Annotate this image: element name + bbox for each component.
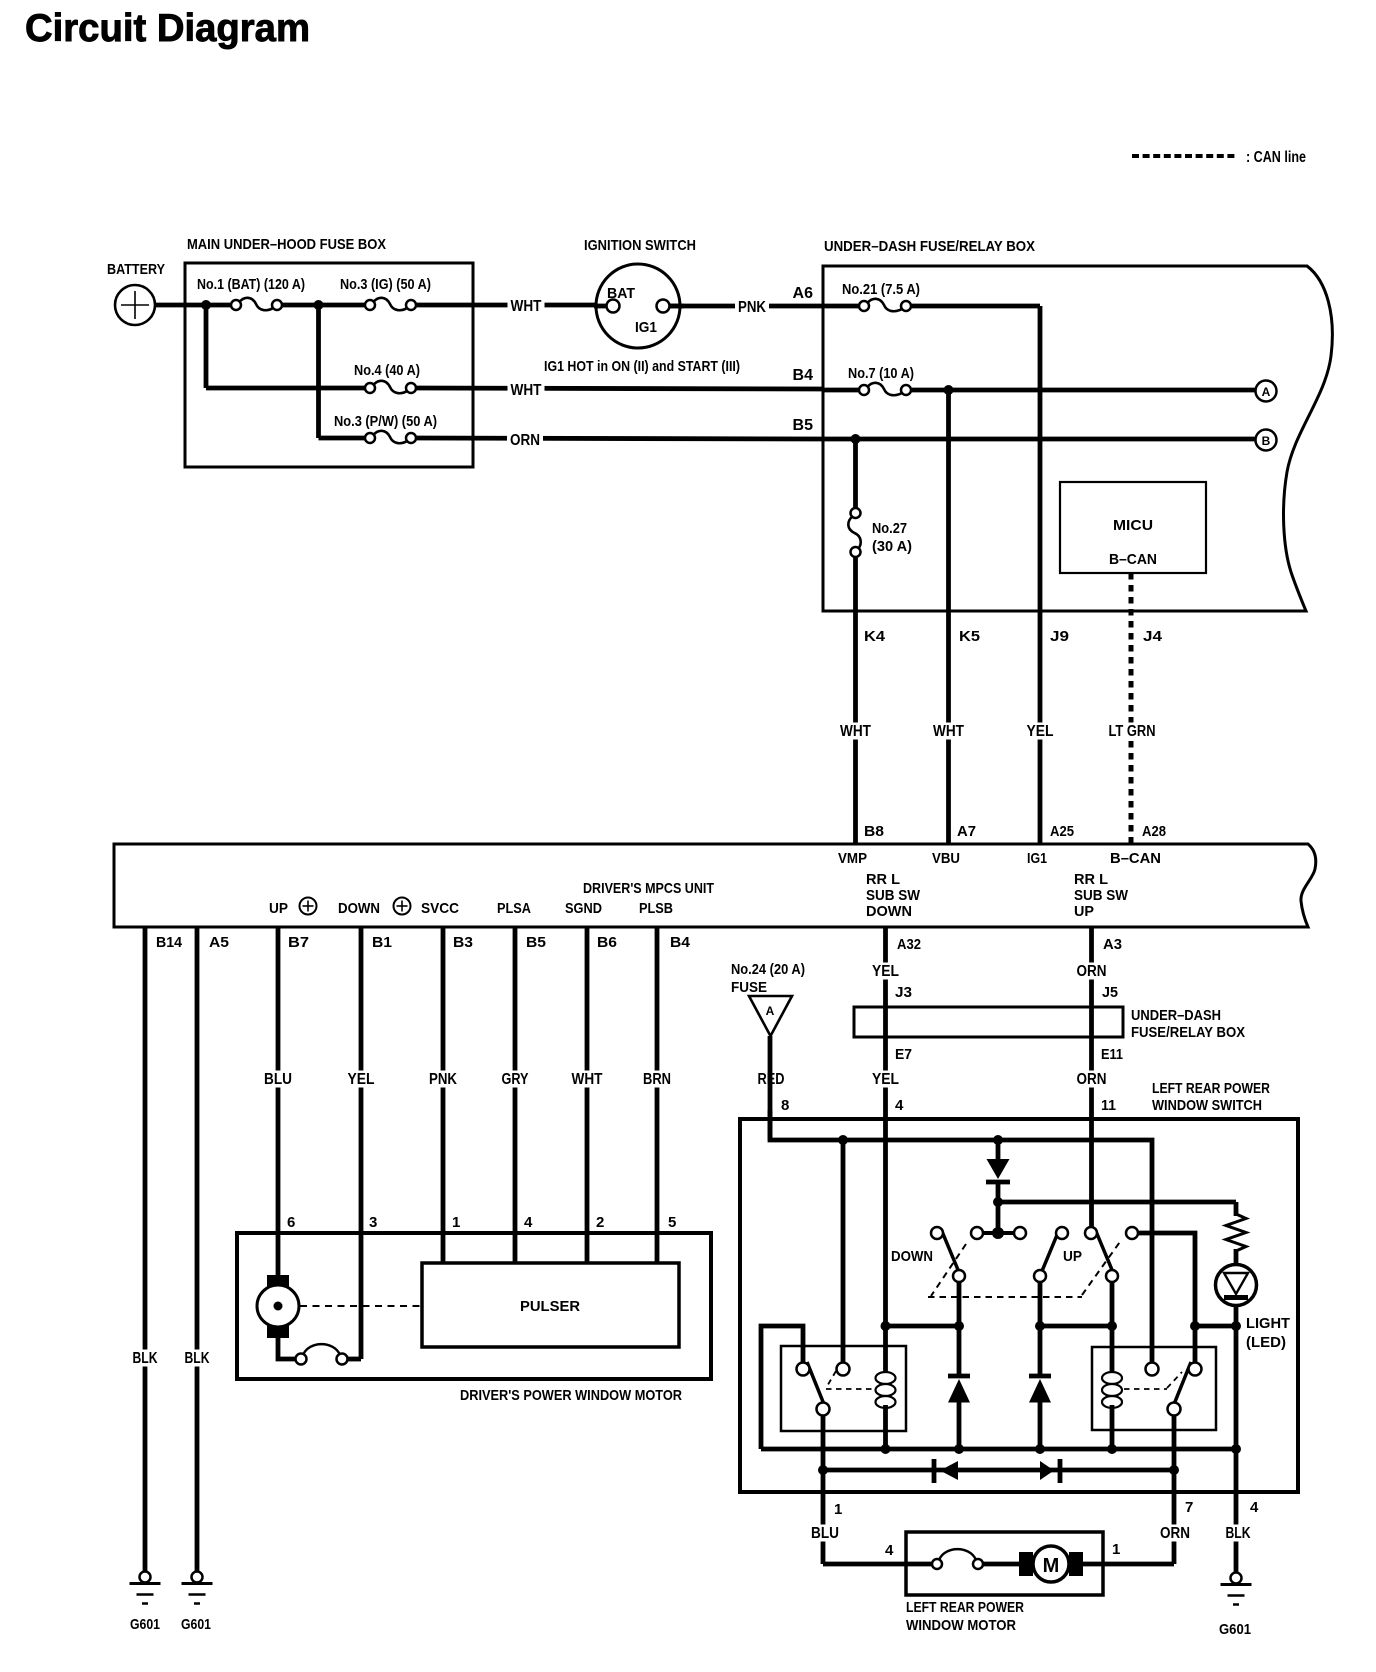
svg-text:4: 4 (895, 1097, 904, 1114)
svg-text:1: 1 (1112, 1541, 1120, 1558)
svg-text:YEL: YEL (872, 963, 899, 980)
svg-text:RR L: RR L (1074, 871, 1108, 888)
svg-text:FUSE/RELAY BOX: FUSE/RELAY BOX (1131, 1024, 1245, 1041)
wire BLU to LR motor connector (823, 1562, 932, 1567)
svg-text:Circuit Diagram: Circuit Diagram (25, 7, 310, 50)
under-dash fuse/relay box outline (823, 266, 1332, 611)
svg-text:No.27: No.27 (872, 520, 907, 537)
wire color PNK (735, 299, 769, 316)
svg-text:G601: G601 (1219, 1621, 1251, 1638)
svg-text:B3: B3 (453, 934, 473, 951)
svg-text:B1: B1 (372, 934, 392, 951)
svg-text:A6: A6 (793, 285, 814, 302)
svg-text:A28: A28 (1142, 823, 1166, 840)
wire diode row BLU to ORN (823, 1468, 1174, 1473)
svg-text:(LED): (LED) (1246, 1334, 1286, 1351)
wire A32 YEL to switch (883, 927, 888, 1374)
wire seg2 (1040, 1324, 1112, 1329)
wire B7 BLU to motor (276, 927, 281, 1277)
svg-text:PLSA: PLSA (497, 900, 531, 917)
main under-hood fuse box outline (185, 263, 473, 467)
svg-text:FUSE: FUSE (731, 979, 767, 996)
wire color WHT K5 (930, 723, 967, 740)
wire B5 to connector B (823, 437, 1255, 442)
wire color GRY (499, 1071, 532, 1088)
svg-text:WHT: WHT (933, 723, 964, 740)
junction K5 tap (944, 385, 954, 395)
wire DOWN moving contact to diode D3 (957, 1282, 962, 1374)
junction D4 ground (1035, 1444, 1045, 1454)
wire J9 to MPCS A25 (1038, 306, 1043, 844)
wire UP lever to relay2 coil (1110, 1282, 1115, 1374)
wire color BLU output (808, 1525, 842, 1542)
wire B3 PNK to pulser (441, 927, 446, 1263)
svg-text:IG1: IG1 (635, 319, 657, 336)
junction coil2 ground (1107, 1444, 1117, 1454)
svg-text:BRN: BRN (643, 1071, 671, 1088)
wire coil1 to ground rail (883, 1405, 888, 1449)
svg-text:J3: J3 (895, 984, 912, 1001)
junction diode rail (993, 1197, 1003, 1207)
svg-text:WHT: WHT (572, 1071, 603, 1088)
svg-text:8: 8 (781, 1097, 789, 1114)
junction seg1 right (954, 1321, 964, 1331)
wire K5 to MPCS A7 (946, 390, 951, 844)
svg-text:UP: UP (1074, 903, 1094, 920)
wire B5 GRY to pulser (513, 927, 518, 1263)
svg-text:PNK: PNK (429, 1071, 457, 1088)
junction seg2 right (1107, 1321, 1117, 1331)
svg-text:No.21 (7.5 A): No.21 (7.5 A) (842, 281, 920, 298)
wire BLU relay1 output pin 1 (821, 1416, 826, 1565)
svg-text:VMP: VMP (838, 850, 867, 867)
wire color ORN A3 (1074, 1071, 1110, 1088)
ground rail inside switch (761, 1447, 1236, 1452)
wire color ORN above J5 (1074, 963, 1110, 980)
svg-text:PULSER: PULSER (520, 1298, 580, 1315)
svg-text:B–CAN: B–CAN (1109, 551, 1157, 568)
wire seg3 to LED column (1195, 1324, 1236, 1329)
svg-text:SUB SW: SUB SW (1074, 887, 1129, 904)
svg-text:B7: B7 (288, 934, 309, 951)
junction BLU diode row (818, 1465, 828, 1475)
svg-text:ORN: ORN (510, 432, 540, 449)
svg-text:2: 2 (596, 1214, 604, 1231)
wire connector to motor M2 (983, 1562, 1020, 1567)
wire ground hook to relay1 left contact (761, 1326, 803, 1449)
svg-text:K4: K4 (864, 628, 886, 645)
driver's MPCS unit box outline (114, 844, 1316, 927)
wire down to fuse No.4 (204, 305, 209, 388)
relay K1 contacts and lever (797, 1362, 875, 1416)
wire color YEL (345, 1071, 378, 1088)
junction seg2 left (1035, 1321, 1045, 1331)
svg-text:B14: B14 (156, 934, 183, 951)
fuse No.7 (10A) (859, 383, 911, 395)
wire fuse No.1 to No.3 (282, 303, 365, 308)
wire ORN relay2 output pin 7 (1172, 1416, 1177, 1565)
MICU box (1060, 482, 1206, 573)
svg-text:B6: B6 (597, 934, 617, 951)
svg-text:No.4 (40 A): No.4 (40 A) (354, 362, 420, 379)
wire PNK ignition to under-dash A6 (670, 304, 823, 309)
under-dash fuse/relay box (pass-through) (854, 1007, 1123, 1037)
wire A3 ORN to switch (1089, 927, 1094, 1228)
svg-text:VBU: VBU (932, 850, 960, 867)
circled plus UP (300, 898, 317, 915)
svg-text:IGNITION SWITCH: IGNITION SWITCH (584, 237, 696, 254)
battery B1 symbol (115, 285, 155, 325)
svg-text:DOWN: DOWN (866, 903, 912, 920)
wire RED feed rail inside switch (770, 1110, 1152, 1364)
svg-text:: CAN line: : CAN line (1246, 149, 1306, 166)
wire color PNK (426, 1071, 460, 1088)
junction battery bus (201, 300, 211, 310)
junction RED to relay1 contact (838, 1135, 848, 1145)
wire color WHT K4 (837, 723, 874, 740)
svg-text:MICU: MICU (1113, 517, 1153, 534)
wire WHT fuse No.3 to ignition switch (416, 303, 606, 308)
svg-text:B5: B5 (526, 934, 546, 951)
svg-text:3: 3 (369, 1214, 377, 1231)
junction seg3 right (1231, 1321, 1241, 1331)
fuse No.3 (P/W) (50A) (365, 431, 416, 443)
svg-text:No.7 (10 A): No.7 (10 A) (848, 365, 914, 382)
junction coil1 ground (881, 1444, 891, 1454)
svg-text:LEFT REAR POWER: LEFT REAR POWER (906, 1599, 1024, 1616)
mechanical linkage dashed trapezoid (928, 1239, 1122, 1297)
svg-text:A: A (766, 1004, 775, 1018)
svg-text:A32: A32 (897, 936, 921, 953)
wire motor M2 to ORN (1083, 1562, 1174, 1567)
DOWN/UP switch assembly (931, 1227, 1138, 1282)
relay K1 box (down relay) (781, 1346, 906, 1431)
junction seg3 left (1190, 1321, 1200, 1331)
fuse No.3 (IG) (50A) (365, 298, 416, 310)
wire WHT fuse No.4 to under-dash B4 (416, 388, 823, 389)
fuse No.1 (BAT) (120A) (231, 298, 282, 310)
svg-text:BATTERY: BATTERY (107, 261, 165, 278)
ground G601 BLK (1221, 1573, 1252, 1605)
wire RED fuse No.24 to switch pin 8 (768, 1036, 773, 1140)
wire color BLU (261, 1071, 295, 1088)
pulser box (422, 1263, 679, 1347)
svg-text:A7: A7 (957, 823, 976, 840)
wire color BLK output (1223, 1525, 1254, 1542)
wire B6 WHT to pulser (585, 927, 590, 1263)
svg-text:B–CAN: B–CAN (1110, 850, 1161, 867)
svg-text:BLU: BLU (264, 1071, 292, 1088)
svg-text:LEFT REAR POWER: LEFT REAR POWER (1152, 1080, 1270, 1097)
svg-text:SUB SW: SUB SW (866, 887, 921, 904)
svg-text:UNDER–DASH: UNDER–DASH (1131, 1007, 1221, 1024)
svg-text:MAIN UNDER–HOOD FUSE BOX: MAIN UNDER–HOOD FUSE BOX (187, 236, 386, 253)
svg-text:A25: A25 (1050, 823, 1074, 840)
svg-text:A: A (1262, 385, 1271, 399)
diode D2 cathode-right (1040, 1459, 1060, 1483)
wire color LT GRN J4 (1106, 723, 1159, 740)
svg-text:DOWN: DOWN (891, 1248, 933, 1265)
wire color WHT row1 (508, 298, 545, 315)
left rear power window motor box (906, 1532, 1103, 1595)
svg-text:WHT: WHT (511, 382, 542, 399)
diode D4 cathode-top (1029, 1376, 1051, 1449)
wire color YEL above J3 (869, 963, 902, 980)
diode D5 anode-top (986, 1140, 1010, 1229)
svg-text:K5: K5 (959, 628, 980, 645)
svg-text:E11: E11 (1101, 1046, 1123, 1063)
wire color YEL A32 (869, 1071, 902, 1088)
svg-text:1: 1 (452, 1214, 460, 1231)
driver power window motor box outline (237, 1233, 711, 1379)
svg-text:WINDOW SWITCH: WINDOW SWITCH (1152, 1097, 1262, 1114)
svg-text:DRIVER'S POWER WINDOW MOTOR: DRIVER'S POWER WINDOW MOTOR (460, 1387, 682, 1404)
svg-text:DOWN: DOWN (338, 900, 380, 917)
wire LED branch down (1234, 1202, 1239, 1216)
diode D1 cathode-left (934, 1459, 958, 1483)
svg-text:E7: E7 (895, 1046, 912, 1063)
svg-text:5: 5 (668, 1214, 676, 1231)
connector in LR motor (932, 1549, 983, 1569)
svg-text:M: M (1043, 1555, 1060, 1577)
relay K2 contacts and lever (1124, 1362, 1202, 1416)
wire K4 down to fuse No.27 (853, 439, 858, 508)
svg-text:4: 4 (1250, 1499, 1259, 1516)
wire color BRN (640, 1071, 674, 1088)
svg-text:YEL: YEL (872, 1071, 899, 1088)
wire color BLK B14 (130, 1350, 161, 1367)
motor M1 driver window (257, 1275, 299, 1338)
svg-text:ORN: ORN (1077, 1071, 1107, 1088)
fuse No.27 (30A) (848, 508, 860, 557)
wire RED to relay1 fixed contact (841, 1140, 846, 1364)
wire C6 to relay2 fixed contact (1138, 1233, 1195, 1364)
svg-text:No.24 (20 A): No.24 (20 A) (731, 961, 805, 978)
svg-text:WINDOW MOTOR: WINDOW MOTOR (906, 1617, 1016, 1634)
junction LED/BLK ground (1231, 1444, 1241, 1454)
fuse No.4 (40A) (365, 381, 416, 393)
wire to fuse No.3 P/W (319, 436, 366, 441)
svg-text:J5: J5 (1102, 984, 1118, 1001)
svg-text:(30 A): (30 A) (872, 538, 912, 555)
svg-text:LIGHT: LIGHT (1246, 1315, 1290, 1332)
svg-text:No.3 (P/W) (50 A): No.3 (P/W) (50 A) (334, 413, 437, 430)
diode D3 cathode-top (948, 1376, 970, 1449)
junction seg1 left (881, 1321, 891, 1331)
wire K4 to MPCS B8 (853, 557, 858, 844)
svg-text:J9: J9 (1050, 628, 1069, 645)
wire color WHT row2 (508, 382, 545, 399)
ground G601 A5 (182, 1572, 213, 1604)
svg-text:LT GRN: LT GRN (1109, 723, 1156, 740)
svg-text:4: 4 (524, 1214, 533, 1231)
CAN line J4 dashed wire (1129, 573, 1134, 844)
svg-text:7: 7 (1185, 1499, 1193, 1516)
wire fuse No.7 to connector A (911, 388, 1255, 393)
junction to No.3 P/W branch (314, 300, 324, 310)
left rear power window switch box outline (740, 1119, 1298, 1492)
svg-text:DRIVER'S MPCS UNIT: DRIVER'S MPCS UNIT (583, 880, 714, 897)
svg-text:IG1 HOT in ON (II) and START (: IG1 HOT in ON (II) and START (III) (544, 358, 740, 375)
svg-text:BLK: BLK (133, 1350, 158, 1367)
svg-text:IG1: IG1 (1027, 850, 1047, 867)
LED D6 LIGHT (1216, 1265, 1257, 1306)
svg-text:6: 6 (287, 1214, 295, 1231)
svg-text:No.3 (IG) (50 A): No.3 (IG) (50 A) (340, 276, 431, 293)
motor M2 left rear window (1019, 1546, 1083, 1582)
svg-text:1: 1 (834, 1501, 842, 1518)
wire UP moving contact to diode D4 (1038, 1282, 1043, 1374)
wire color YEL J9 (1024, 723, 1057, 740)
ignition switch SW1 (594, 264, 684, 348)
svg-text:B: B (1262, 434, 1271, 448)
svg-text:A5: A5 (209, 934, 229, 951)
wire coil2 to ground rail (1110, 1405, 1115, 1449)
svg-text:RR L: RR L (866, 871, 900, 888)
relay K2 box (up relay) (1092, 1347, 1216, 1430)
svg-text:SGND: SGND (565, 900, 602, 917)
wire color ORN row3 (507, 432, 543, 449)
svg-text:SVCC: SVCC (421, 900, 459, 917)
wire BLK pin 4 to ground (1234, 1449, 1239, 1572)
svg-text:B8: B8 (864, 823, 884, 840)
svg-text:B4: B4 (670, 934, 691, 951)
connector in driver motor (296, 1344, 348, 1364)
svg-text:BLK: BLK (185, 1350, 210, 1367)
svg-text:YEL: YEL (1027, 723, 1054, 740)
dashed link motor to pulser (300, 1305, 421, 1307)
svg-text:No.1 (BAT) (120 A): No.1 (BAT) (120 A) (197, 276, 305, 293)
wire fuse No.21 to J9 (911, 304, 1040, 309)
svg-text:BLK: BLK (1226, 1525, 1251, 1542)
wire B14 BLK to ground (143, 927, 148, 1572)
svg-text:J4: J4 (1143, 628, 1163, 645)
fuse No.24 (20A) triangle symbol (749, 996, 792, 1036)
connector terminal A (1256, 381, 1277, 402)
wire A6 stub into box (823, 304, 859, 309)
junction K4 tap (851, 434, 861, 444)
wire LED to ground rail (1234, 1306, 1239, 1450)
wire to fuse No.4 (206, 386, 365, 391)
wire color RED (755, 1071, 788, 1088)
wire color BLK A5 (182, 1350, 213, 1367)
wire connector to B1 (348, 1357, 362, 1362)
circled plus DOWN (394, 898, 411, 915)
svg-text:4: 4 (885, 1542, 894, 1559)
wire A5 BLK to ground (195, 927, 200, 1572)
svg-text:ORN: ORN (1160, 1525, 1190, 1542)
svg-text:UP: UP (1063, 1248, 1082, 1265)
svg-text:A3: A3 (1103, 936, 1122, 953)
junction ORN diode row (1169, 1465, 1179, 1475)
svg-text:11: 11 (1101, 1097, 1116, 1114)
svg-text:B4: B4 (793, 367, 814, 384)
wire color ORN output (1157, 1525, 1193, 1542)
wire B1 YEL to motor connector (359, 927, 364, 1359)
wire B4 BRN to pulser (655, 927, 660, 1263)
svg-text:B5: B5 (793, 417, 814, 434)
svg-text:YEL: YEL (348, 1071, 375, 1088)
svg-text:UP: UP (269, 900, 288, 917)
svg-text:G601: G601 (181, 1616, 211, 1633)
wire seg1 YEL to DOWN contact (886, 1324, 960, 1329)
CAN line legend dashed sample (1132, 154, 1236, 158)
svg-text:BLU: BLU (811, 1525, 839, 1542)
wire B4 stub into box (823, 388, 859, 393)
svg-text:G601: G601 (130, 1616, 160, 1633)
junction RED to diode D5 (993, 1135, 1003, 1145)
svg-text:WHT: WHT (511, 298, 542, 315)
svg-text:PNK: PNK (738, 299, 766, 316)
svg-text:BAT: BAT (607, 285, 635, 302)
junction D3 ground (954, 1444, 964, 1454)
connector terminal B (1256, 430, 1277, 451)
wire color WHT (569, 1071, 606, 1088)
svg-text:ORN: ORN (1077, 963, 1107, 980)
svg-text:UNDER–DASH FUSE/RELAY BOX: UNDER–DASH FUSE/RELAY BOX (824, 238, 1035, 255)
svg-text:WHT: WHT (840, 723, 871, 740)
wire diode rail to LED branch (998, 1200, 1236, 1205)
wire motor brush to connector (278, 1337, 295, 1359)
wire battery to fuse No.1 (155, 303, 231, 308)
relay K2 coil (1102, 1372, 1122, 1408)
wire resistor to LED (1234, 1249, 1239, 1265)
wire ORN fuse No.3 P/W to under-dash B5 (416, 438, 823, 439)
wire down to fuse No.3 P/W (316, 305, 321, 438)
relay K1 coil (876, 1372, 896, 1408)
svg-text:GRY: GRY (502, 1071, 529, 1088)
fuse No.21 (7.5A) (859, 299, 911, 311)
svg-text:PLSB: PLSB (639, 900, 673, 917)
resistor R1 (1226, 1214, 1246, 1251)
ground G601 B14 (130, 1572, 161, 1604)
